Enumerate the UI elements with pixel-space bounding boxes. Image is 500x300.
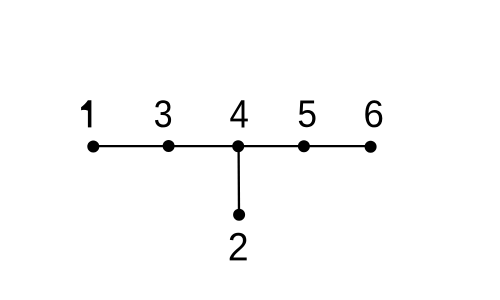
- label 1: [81, 100, 91, 127]
- wire horizontal edge 1-3-4-5-6: [93, 145, 370, 147]
- node 5: [298, 140, 310, 152]
- node 4: [232, 140, 244, 152]
- label 5: [299, 101, 316, 128]
- node 6: [365, 141, 377, 153]
- label 4: [230, 100, 248, 127]
- label 6: [365, 100, 382, 127]
- node 3: [163, 140, 175, 152]
- node 2: [233, 209, 245, 221]
- wire vertical edge 4-2: [237, 146, 240, 215]
- label 2: [230, 233, 247, 261]
- node 1: [87, 141, 99, 153]
- label 3: [155, 100, 171, 127]
